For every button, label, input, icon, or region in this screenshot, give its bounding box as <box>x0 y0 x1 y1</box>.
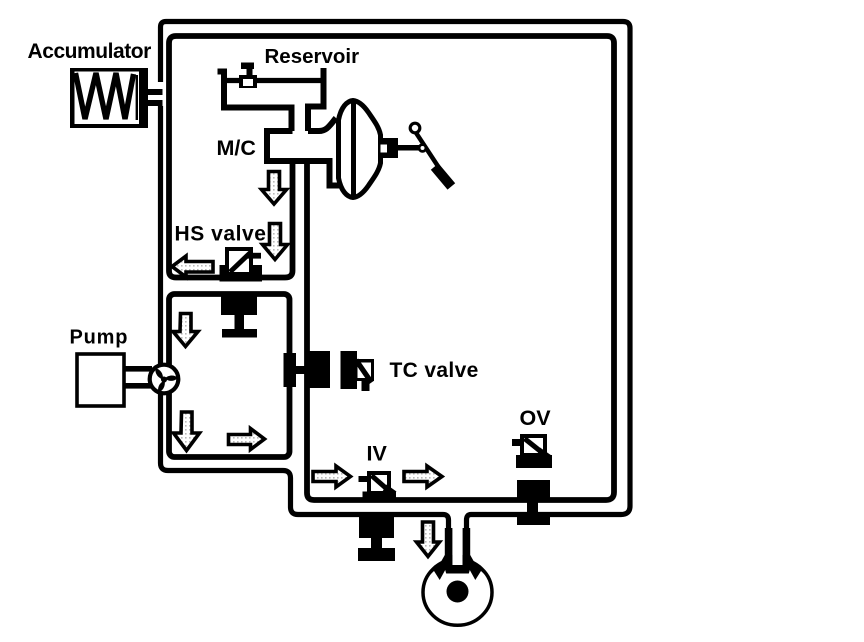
svg-text:HS valve: HS valve <box>175 223 267 246</box>
reservoir cap <box>239 63 257 89</box>
HS valve solenoid base <box>220 265 263 282</box>
reservoir <box>218 68 324 131</box>
svg-text:Accumulator: Accumulator <box>28 40 152 63</box>
arrow down into HS valve <box>263 224 288 260</box>
pump rotor circle <box>150 365 180 397</box>
brake pedal <box>397 123 455 189</box>
arrow down in pump loop lower <box>174 412 200 451</box>
wheel cylinder <box>423 528 492 625</box>
svg-text:IV: IV <box>367 442 388 466</box>
arrow left out of HS valve <box>172 256 213 277</box>
wire accumulator stub <box>146 89 163 106</box>
wire return line, jog, lower-left and left frame <box>161 106 449 572</box>
wire outer frame: top, right, down to return corner <box>161 22 631 573</box>
TC valve solenoid straddling channel <box>284 351 331 388</box>
svg-text:M/C: M/C <box>217 136 256 160</box>
TC valve symbol <box>341 351 375 391</box>
wire inner frame loop through M/C: line A, HS box bottom, left wall, top, right wall, inner bottom, line B <box>169 36 614 500</box>
pump P <box>70 327 153 407</box>
master cylinder M/C body <box>267 131 339 186</box>
IV valve symbol <box>359 473 397 501</box>
arrow right in pump loop <box>229 429 265 450</box>
arrow down in pump loop upper <box>173 314 198 347</box>
OV solenoid straddling lines <box>517 480 550 525</box>
OV valve symbol <box>512 436 552 468</box>
brake booster <box>339 101 381 198</box>
arrow right into IV <box>313 466 351 487</box>
booster pushrod collar <box>381 138 399 158</box>
IV solenoid below return line <box>358 516 395 561</box>
arrow down from M/C <box>262 172 287 205</box>
arrow right out of IV <box>404 466 442 487</box>
solenoid on pump loop top <box>221 296 257 338</box>
wire pump loop box <box>169 294 290 457</box>
accumulator <box>70 68 148 128</box>
svg-text:OV: OV <box>520 406 552 430</box>
arrow down to wheel <box>417 522 440 557</box>
svg-text:Reservoir: Reservoir <box>265 45 360 68</box>
svg-text:TC valve: TC valve <box>390 359 479 382</box>
svg-text:Pump: Pump <box>70 327 129 349</box>
HS valve symbol <box>227 249 261 274</box>
